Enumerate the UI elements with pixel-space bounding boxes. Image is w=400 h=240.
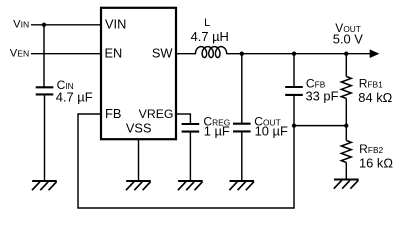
wire FB node bar	[294, 125, 346, 127]
wire CREG to ground	[189, 132, 191, 181]
wire COUT to ground	[241, 131, 243, 181]
capacitor C_OUT	[233, 123, 251, 125]
wire VSS to ground	[138, 139, 140, 181]
svg-text:10 µF: 10 µF	[255, 124, 288, 139]
wire CIN branch	[43, 25, 45, 88]
wire CFB branch bottom	[293, 95, 295, 126]
ground CIN	[32, 180, 57, 182]
wire VEN input	[31, 53, 101, 55]
wire RFB1 top lead	[345, 54, 347, 77]
wire RFB2 to ground	[345, 163, 347, 180]
svg-text:33 pF: 33 pF	[306, 88, 339, 103]
node CFB junction	[292, 52, 296, 56]
svg-text:EN: EN	[105, 45, 123, 60]
svg-text:5.0 V: 5.0 V	[333, 32, 364, 47]
node COUT junction	[240, 52, 244, 56]
capacitor C_IN	[36, 86, 54, 88]
ground COUT	[230, 180, 255, 182]
svg-text:VIN: VIN	[13, 19, 29, 31]
VOUT arrow	[370, 49, 380, 58]
wire VREG stub	[176, 113, 190, 115]
resistor R_FB1	[341, 77, 351, 99]
svg-text:1 µF: 1 µF	[204, 124, 230, 139]
svg-text:VIN: VIN	[105, 17, 126, 32]
svg-text:VEN: VEN	[10, 48, 29, 60]
node FB right junction	[344, 123, 348, 127]
wire RFB1 bottom lead	[345, 99, 347, 126]
resistor R_FB2	[341, 141, 351, 163]
svg-text:FB: FB	[105, 106, 121, 121]
capacitor C_REG	[182, 123, 200, 125]
node VIN junction	[42, 23, 46, 27]
svg-text:RFB1: RFB1	[359, 77, 383, 91]
svg-text:RFB2: RFB2	[359, 142, 383, 156]
wire COUT branch	[241, 54, 243, 124]
svg-text:VREG: VREG	[139, 107, 174, 121]
svg-text:84 kΩ: 84 kΩ	[358, 90, 392, 105]
wire CFB branch top	[293, 54, 295, 87]
wire FB feedback return	[78, 113, 101, 115]
wire output rail	[226, 53, 370, 55]
svg-text:SW: SW	[152, 45, 174, 60]
node RFB1 junction	[344, 52, 348, 56]
wire VIN input	[31, 24, 101, 26]
svg-text:16 kΩ: 16 kΩ	[359, 156, 393, 171]
inductor L 4.7uH	[195, 47, 226, 58]
capacitor C_FB	[285, 86, 303, 88]
node FB left junction	[292, 123, 296, 127]
wire SW to inductor	[176, 53, 196, 55]
svg-text:VSS: VSS	[126, 120, 152, 135]
svg-text:4.7 µH: 4.7 µH	[191, 29, 229, 44]
ground CREG	[178, 180, 203, 182]
wire CIN to ground	[44, 94, 46, 181]
svg-text:4.7 µF: 4.7 µF	[56, 89, 93, 104]
svg-text:L: L	[204, 17, 210, 29]
wire RFB2 top lead	[345, 126, 347, 141]
op-amp U1 regulator box	[101, 8, 176, 139]
ground VSS	[126, 180, 151, 182]
ground RFB2	[334, 179, 359, 181]
